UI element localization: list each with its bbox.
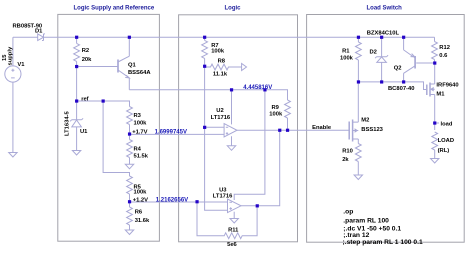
wire: divider node vertical to comparator inputs: [205, 67, 228, 210]
svg-text:R2: R2: [82, 48, 89, 54]
resistor R2: [74, 37, 80, 101]
directive: .dc: [343, 225, 401, 232]
directive: .param RL 100: [343, 218, 389, 225]
mosfet M2 BSS123: [349, 120, 358, 142]
directive: .step: [343, 239, 423, 246]
svg-text:R12: R12: [439, 45, 450, 51]
svg-text:BSS64A: BSS64A: [128, 70, 151, 76]
directive: .op: [343, 209, 353, 216]
resistor R12: [432, 37, 438, 63]
voltage: 1.2162656V: [156, 198, 188, 204]
wire: M1 drain to load: [434, 95, 436, 124]
node dot: R2 top: [75, 36, 78, 39]
label: 100k (R3): [134, 120, 148, 126]
label: BC807-40: [388, 86, 414, 92]
label: load: [441, 122, 453, 128]
wire: ref rail: [77, 101, 130, 107]
svg-text:Q1: Q1: [128, 63, 137, 69]
node dot: R2/Q1 base: [75, 65, 78, 68]
label: +1.2V: [133, 198, 148, 204]
section box: Logic: [179, 15, 298, 242]
ground: R6: [125, 230, 133, 235]
port flag (R8 output): [242, 64, 247, 71]
svg-text:R11: R11: [228, 227, 239, 233]
label: M1: [436, 91, 445, 97]
label: U2: [216, 108, 223, 114]
label: LT1716 (U3): [213, 193, 233, 199]
svg-text:LOAD: LOAD: [438, 138, 454, 144]
ground: R10: [354, 175, 362, 180]
label: R12: [439, 45, 450, 51]
wire: U2 V+ riser: [231, 90, 233, 125]
resistor R10: [355, 139, 361, 175]
label: 100k (R1): [340, 56, 354, 62]
label: Q2: [394, 65, 402, 71]
label: 100k (R5): [134, 190, 148, 196]
label: R6: [135, 210, 143, 216]
label: R3: [134, 113, 142, 119]
node dot: +1.7V: [128, 132, 131, 135]
node dot: R12/Q2 base: [433, 61, 436, 64]
svg-text:IRF9640: IRF9640: [436, 82, 458, 88]
svg-text:100k: 100k: [134, 120, 148, 126]
svg-text:Q2: Q2: [394, 65, 402, 71]
node dot: R1 bottom: [357, 80, 360, 83]
node dot: R7 top: [203, 36, 206, 39]
svg-text:2k: 2k: [342, 157, 349, 163]
svg-text:0.6: 0.6: [439, 53, 448, 59]
svg-text:BSS123: BSS123: [361, 127, 383, 133]
comparator U3 LT1716: [228, 199, 242, 213]
svg-text:LT1634-5: LT1634-5: [64, 111, 70, 136]
svg-text:+1.7V: +1.7V: [132, 130, 147, 136]
label: R9: [272, 105, 280, 111]
wire: U2 output / Enable: [237, 129, 349, 131]
wire: ref to R5: [103, 101, 129, 176]
resistor R8 (horizontal): [205, 64, 242, 70]
svg-text:R10: R10: [342, 149, 353, 155]
svg-text:11.1k: 11.1k: [213, 72, 228, 78]
ground: R4: [125, 164, 133, 169]
label: R2: [82, 48, 89, 54]
resistor R9: [285, 90, 291, 130]
svg-text:BZX84C10L: BZX84C10L: [367, 30, 400, 36]
svg-text:R4: R4: [134, 147, 142, 153]
label: Enable: [312, 125, 332, 131]
node dot: ref mid: [102, 99, 105, 102]
label: LOAD: [438, 138, 454, 144]
label: 51.5k: [134, 154, 149, 160]
wire: Q2 base to R12 bottom: [416, 62, 434, 64]
node dot: Q1 collector: [128, 36, 131, 39]
svg-text:20k: 20k: [82, 57, 92, 63]
svg-text:R8: R8: [218, 58, 226, 64]
node dot: Q2 emitter: [402, 36, 405, 39]
node dot: D2 bottom: [380, 80, 383, 83]
svg-text:ref: ref: [81, 97, 88, 103]
svg-text:(RL): (RL): [438, 148, 450, 154]
label: 11.1k: [213, 72, 228, 78]
resistor R5: [127, 173, 133, 203]
svg-text:D2: D2: [370, 49, 377, 55]
svg-text:load: load: [441, 122, 453, 128]
node dot: U2 plus stub: [203, 126, 206, 129]
node dot: Q2 collector on rail: [402, 80, 405, 83]
ground: U2: [227, 146, 235, 151]
svg-text:4.445816V: 4.445816V: [243, 85, 272, 91]
wire: +1.2V rail to U3 plus: [130, 201, 228, 203]
node dot: R9 on Enable: [286, 129, 289, 132]
svg-text:;.step param RL 1 100 0.1: ;.step param RL 1 100 0.1: [343, 239, 423, 246]
resistor R6: [127, 202, 133, 230]
zener D2 BZX84C10L: [375, 37, 388, 82]
label: M2: [361, 117, 369, 123]
resistor R4: [127, 134, 133, 164]
svg-text:R9: R9: [272, 105, 280, 111]
wire: gate drive rail: [358, 82, 426, 90]
comparator U2 LT1716: [224, 124, 237, 137]
label: RB085T-90: [13, 23, 43, 29]
label: 100k (R9): [269, 112, 283, 118]
svg-text:5e6: 5e6: [227, 242, 237, 248]
title: Logic: [225, 6, 242, 12]
label: R7: [211, 43, 218, 49]
label: R1: [342, 49, 350, 55]
wire: M1 source to R12/Q2 node: [434, 63, 436, 84]
label: LT1716 (U2): [211, 115, 231, 121]
wire: U3 V- to ground: [233, 212, 235, 219]
svg-text:Enable: Enable: [312, 125, 332, 131]
svg-text:LT1716: LT1716: [213, 193, 233, 199]
title: Load Switch: [367, 6, 403, 12]
node dot: ref left: [75, 99, 78, 102]
node dot: U3 out/R11: [256, 204, 259, 207]
ground: V1: [9, 153, 17, 158]
svg-text:M1: M1: [436, 91, 445, 97]
resistor R11 (horizontal, feedback): [197, 202, 257, 239]
node dot: U3 out riser on Enable: [278, 129, 281, 132]
svg-text:U1: U1: [80, 129, 88, 135]
svg-text:Logic Supply and Reference: Logic Supply and Reference: [74, 6, 155, 12]
ground: U3: [230, 219, 238, 224]
svg-text:R1: R1: [342, 49, 350, 55]
wire: U3 V+ riser: [234, 90, 265, 200]
svg-text:U2: U2: [216, 108, 223, 114]
label: 31.6k: [135, 218, 150, 224]
wire: U3 output: [241, 130, 280, 206]
mosfet M1 IRF9640: [427, 83, 435, 97]
svg-text:V1: V1: [17, 62, 25, 68]
svg-text:D1: D1: [35, 28, 43, 34]
wire: Q1 base wire: [77, 66, 118, 68]
label: R11: [228, 227, 239, 233]
label: R4: [134, 147, 142, 153]
label: U3: [219, 187, 227, 193]
transistor Q2 BC807-40: [404, 37, 416, 82]
label: BZX84C10L: [367, 30, 400, 36]
wire: load flag stub: [435, 122, 439, 124]
label: R8: [218, 58, 226, 64]
title: Logic Supply and Reference: [74, 6, 155, 12]
voltage: 4.445816V: [243, 85, 272, 91]
zener U1 LT1634-5: [70, 101, 83, 151]
svg-text:+1.2V: +1.2V: [133, 198, 148, 204]
label: 0.6: [439, 53, 448, 59]
wire: +1.7V rail to U2 minus: [130, 133, 225, 135]
label: 20k: [82, 57, 92, 63]
svg-text:LT1716: LT1716: [211, 115, 231, 121]
wire: U2 V- to ground: [231, 136, 233, 146]
ground: LOAD: [431, 159, 439, 164]
section box: Logic Supply and Reference: [58, 14, 160, 241]
node dot: U3 V+ on rail: [263, 88, 266, 91]
node dot: load: [433, 121, 436, 124]
label: 2k: [342, 157, 349, 163]
node dot: D2 top: [380, 36, 383, 39]
wire: V1 top lead: [12, 37, 14, 66]
label: D1: [35, 28, 43, 34]
svg-text:1.2162656V: 1.2162656V: [156, 198, 188, 204]
directive: .tran: [343, 232, 369, 239]
label: +1.7V: [132, 130, 147, 136]
wire: load to LOAD resistor: [434, 123, 436, 130]
node dot: +1.2V: [128, 200, 131, 203]
svg-text:31.6k: 31.6k: [135, 218, 150, 224]
wire: stub to U2 plus input: [205, 126, 225, 128]
label: BSS123: [361, 127, 383, 133]
section box: Load Switch: [307, 15, 465, 243]
svg-text:100k: 100k: [269, 112, 283, 118]
label: 100k (R7): [211, 48, 225, 54]
label: Q1: [128, 63, 137, 69]
label: LT1634-5 (rotated): [64, 111, 70, 136]
svg-text:supply: supply: [8, 46, 14, 65]
voltage: 1.6999745V: [155, 130, 187, 136]
svg-text:.op: .op: [343, 209, 353, 216]
svg-text:BC807-40: BC807-40: [388, 86, 414, 92]
label: R10: [342, 149, 353, 155]
label: ref: [81, 97, 88, 103]
label: V1: [17, 62, 25, 68]
transistor Q1 BSS64A: [118, 37, 129, 90]
resistor R1: [356, 37, 362, 82]
label: D2: [370, 49, 377, 55]
resistor LOAD (RL): [432, 132, 438, 159]
node dot: R1 top: [357, 36, 360, 39]
node dot: U2 V+ on rail: [230, 88, 233, 91]
label: U1: [80, 129, 88, 135]
svg-text:Load Switch: Load Switch: [367, 6, 403, 12]
label: 15 (rotated): [2, 54, 8, 61]
node dot: +1.2/R11 tap: [195, 200, 198, 203]
resistor R7: [202, 37, 208, 67]
svg-text:100k: 100k: [134, 190, 148, 196]
label: IRF9640: [436, 82, 458, 88]
svg-text:51.5k: 51.5k: [134, 154, 149, 160]
diode D1 RB085T-90: [38, 34, 45, 41]
svg-text:1.6999745V: 1.6999745V: [155, 130, 187, 136]
svg-text:100k: 100k: [340, 56, 354, 62]
label: supply (rotated): [8, 46, 14, 65]
voltage source V1: [5, 66, 21, 82]
wire: V1 bottom lead to ground: [12, 82, 14, 152]
ground: U1: [72, 151, 80, 156]
svg-text:.param RL 100: .param RL 100: [343, 218, 389, 225]
svg-text:Logic: Logic: [225, 6, 242, 12]
label: BSS64A: [128, 70, 151, 76]
label: R5: [134, 184, 142, 190]
svg-text:M2: M2: [361, 117, 369, 123]
svg-text:R6: R6: [135, 210, 143, 216]
wire: M2 drain riser: [357, 82, 359, 122]
svg-text:100k: 100k: [211, 48, 225, 54]
wire: top supply rail: [13, 36, 435, 38]
resistor R3: [127, 101, 133, 134]
label: 5e6: [227, 242, 237, 248]
svg-text:R3: R3: [134, 113, 142, 119]
label: (RL): [438, 148, 450, 154]
wire: supply 5V rail from Q1 emitter: [129, 90, 287, 97]
node dot: R7/R8 divider: [203, 65, 206, 68]
